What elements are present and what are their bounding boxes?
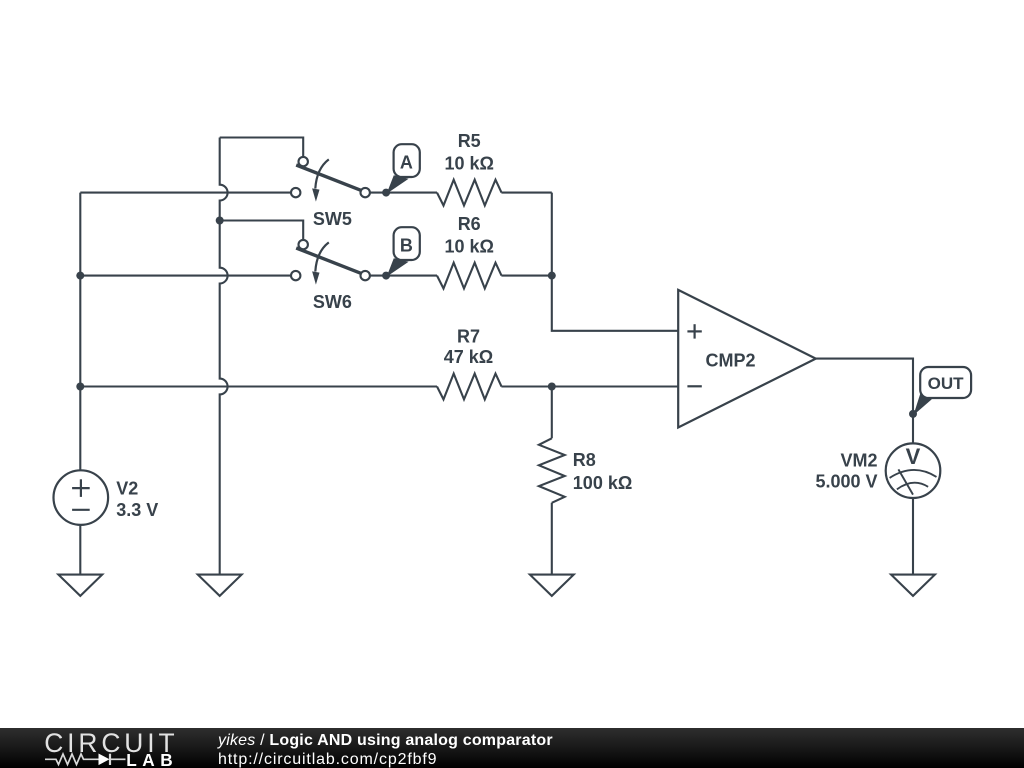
wire: R7 row horizontal, left rail to R7	[80, 385, 437, 387]
svg-text:SW5: SW5	[313, 209, 352, 229]
svg-text:V2: V2	[116, 478, 138, 498]
wire: comparator output to OUT rail	[816, 359, 913, 443]
svg-text:10 kΩ: 10 kΩ	[444, 153, 493, 173]
junction: node B at SW6 common	[382, 272, 390, 280]
footer title and url	[218, 731, 553, 768]
junction: mid rail / R6 row	[548, 272, 556, 280]
svg-text:SW6: SW6	[313, 292, 352, 312]
VM2 designator and value labels	[815, 451, 877, 492]
wire: R8 bottom lead to ground	[551, 503, 553, 575]
junction: R7 row / R8	[548, 383, 556, 391]
wire: mid rail down to non-inverting input corner	[552, 193, 678, 331]
svg-text:R5: R5	[458, 131, 481, 151]
svg-text:100 kΩ: 100 kΩ	[573, 473, 632, 493]
R6 designator and value labels	[444, 214, 493, 257]
svg-text:3.3 V: 3.3 V	[116, 500, 158, 520]
wire: second rail vertical with hops over rows A, B and R7 row	[220, 138, 228, 575]
SW5 designator label	[313, 209, 352, 229]
wire: SW5 common to R5	[365, 192, 437, 194]
wire: SW5 top link from second rail	[220, 138, 304, 158]
resistor R6	[437, 263, 502, 289]
junction: second rail / SW6 top link	[216, 217, 224, 225]
svg-text:R6: R6	[458, 214, 481, 234]
ground under V2	[58, 575, 102, 596]
CMP2 designator label	[705, 351, 755, 371]
wire: row B horizontal, left rail to SW6 left throw	[80, 275, 292, 277]
voltage source V2	[54, 470, 109, 525]
wire: R6 to mid rail junction	[501, 275, 551, 277]
ground under second rail	[198, 575, 242, 596]
wire: R8 top lead	[551, 387, 553, 439]
node B flag	[394, 227, 420, 260]
node OUT flag	[920, 367, 971, 398]
SW6 designator label	[313, 292, 352, 312]
switch SW6	[291, 240, 370, 285]
node OUT flag pointer	[913, 393, 931, 416]
svg-text:B: B	[400, 236, 413, 256]
svg-text:47 kΩ: 47 kΩ	[444, 347, 493, 367]
wire: SW6 common to R6	[365, 275, 437, 277]
svg-text:10 kΩ: 10 kΩ	[444, 236, 493, 256]
svg-text:VM2: VM2	[840, 451, 877, 471]
switch SW5	[291, 157, 370, 202]
footer bar	[0, 728, 1024, 768]
voltmeter VM2	[886, 443, 941, 498]
node A flag pointer	[387, 175, 409, 194]
junction: left rail / row B	[76, 272, 84, 280]
svg-text:A: A	[400, 153, 413, 173]
junction: left rail / R7 row	[76, 383, 84, 391]
R8 designator and value labels	[573, 450, 632, 493]
junction: node A at SW5 common	[382, 189, 390, 197]
wire: SW6 top link from second rail	[220, 221, 304, 241]
node B flag pointer	[387, 258, 409, 277]
svg-text:LAB: LAB	[126, 750, 178, 768]
wire: left rail from SW5 row down to V2	[79, 193, 81, 470]
svg-text:R8: R8	[573, 450, 596, 470]
svg-text:V: V	[906, 444, 921, 469]
ground under VM2	[891, 575, 935, 596]
node A flag	[394, 144, 420, 177]
wire: VM2 bottom lead to ground	[912, 499, 914, 575]
resistor R7	[437, 374, 502, 400]
R7 designator and value labels	[444, 326, 493, 367]
resistor R5	[437, 180, 502, 206]
svg-text:5.000 V: 5.000 V	[815, 471, 877, 491]
svg-text:OUT: OUT	[928, 374, 965, 393]
wire: R7 to inverting input	[501, 385, 678, 387]
svg-text:CMP2: CMP2	[705, 351, 755, 371]
wire: row A horizontal, left rail to SW5 left throw	[80, 192, 292, 194]
resistor R8	[539, 438, 565, 503]
V2 designator and value labels	[116, 478, 158, 520]
R5 designator and value labels	[444, 131, 493, 174]
CircuitLab logo	[30, 728, 220, 768]
wire: R5 to mid rail corner	[501, 192, 551, 194]
junction: node OUT on output rail	[909, 410, 917, 418]
op-amp comparator CMP2	[678, 290, 816, 428]
ground under R8	[530, 575, 574, 596]
svg-text:R7: R7	[457, 326, 480, 346]
wire: V2 minus lead to ground	[79, 526, 81, 575]
